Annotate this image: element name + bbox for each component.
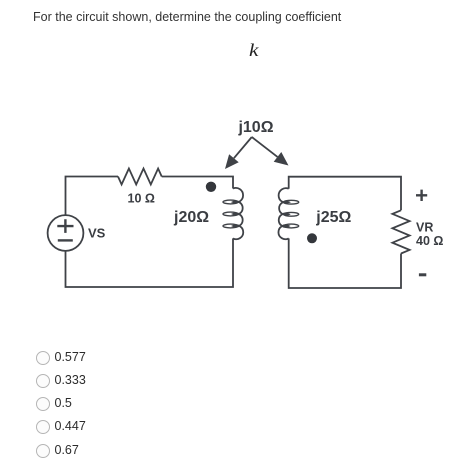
label j10Ω mutual impedance: [237, 119, 273, 136]
voltage source VS circle: [48, 215, 84, 251]
resistor R 10Ω zigzag: [118, 169, 162, 185]
label VR: [416, 220, 433, 234]
inductor L2 j25Ω coil: [278, 188, 298, 239]
wire: left loop top-left segment from source to resistor: [66, 177, 119, 216]
svg-text:j20Ω: j20Ω: [173, 209, 209, 226]
resistor VR 40Ω vertical zigzag: [392, 210, 409, 253]
dot marker on L2 (bottom): [307, 233, 317, 243]
arrow from j10Ω label to L1: [225, 137, 252, 169]
wire: right loop top segment: [289, 177, 401, 211]
plus polarity mark of VR: [416, 190, 427, 201]
svg-text:j25Ω: j25Ω: [315, 209, 351, 226]
dot marker on L1 (top): [206, 182, 216, 192]
svg-text:VS: VS: [88, 226, 106, 241]
label 10 Ω: [128, 192, 155, 206]
inductor L1 j20Ω coil: [223, 188, 243, 239]
minus polarity mark of VR: [419, 273, 426, 276]
plus sign inside source: [57, 219, 73, 233]
svg-text:10 Ω: 10 Ω: [128, 192, 155, 206]
label VS: [88, 226, 106, 241]
wire: left loop top segment from resistor to top-right corner: [162, 177, 233, 189]
svg-text:j10Ω: j10Ω: [237, 119, 273, 136]
wire: left loop right and bottom segments: [66, 238, 234, 287]
label j25Ω: [315, 209, 351, 226]
arrow from j10Ω label to L2: [252, 137, 289, 166]
minus sign inside source: [58, 239, 73, 241]
svg-text:VR: VR: [416, 220, 433, 234]
label 40 Ω: [416, 234, 443, 248]
label j20Ω: [173, 209, 209, 226]
svg-text:40 Ω: 40 Ω: [416, 234, 443, 248]
wire: right loop bottom segment: [289, 238, 401, 288]
